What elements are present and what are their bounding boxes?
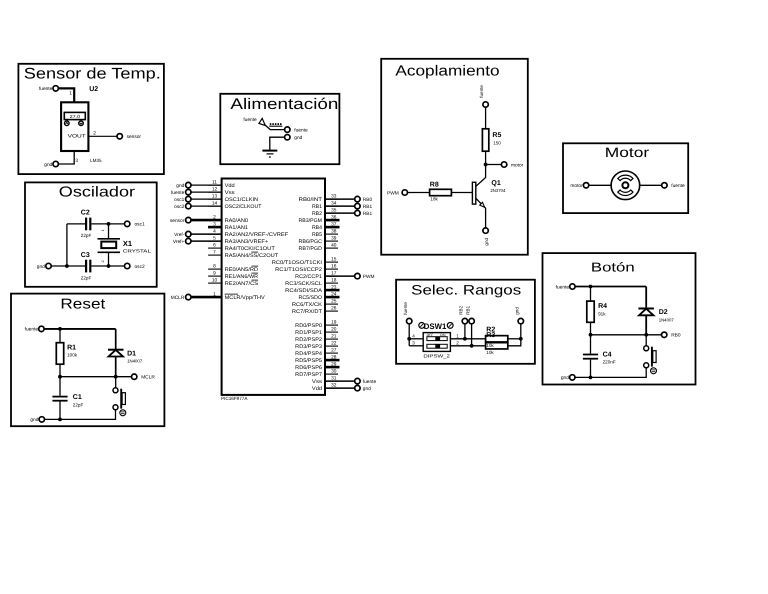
- dangling wire right row 16: [325, 296, 340, 299]
- capacitor C1 plates: [52, 396, 67, 398]
- svg-text:D1: D1: [127, 350, 136, 357]
- pin 17 (RC2/CCP1) right stub: [325, 275, 338, 277]
- svg-text:Vref+: Vref+: [173, 239, 185, 245]
- terminal gnd (alimentacion block): [285, 135, 290, 140]
- svg-text:OSC1/CLKIN: OSC1/CLKIN: [225, 197, 259, 203]
- block border: Selec. Rangos: [396, 280, 535, 364]
- terminal gnd (boton block): [570, 375, 575, 380]
- svg-text:1: 1: [69, 91, 72, 97]
- svg-text:22pF: 22pF: [81, 275, 92, 280]
- node junction D1/button: [114, 375, 118, 379]
- svg-text:Q1: Q1: [491, 180, 500, 187]
- svg-text:R5: R5: [492, 132, 501, 139]
- block border: Sensor de Temp.: [18, 64, 164, 174]
- power net hatch marks: [270, 123, 272, 125]
- dangling wire right row 5: [325, 219, 340, 222]
- pin 13 (OSC1/CLKIN) left stub: [208, 198, 222, 200]
- terminal sensor (chip left): [191, 219, 222, 222]
- svg-text:3: 3: [75, 158, 78, 164]
- svg-text:18: 18: [331, 278, 337, 284]
- terminal osc2 (chip left): [191, 205, 222, 207]
- dangling wire pin 3 (RA1): [208, 226, 222, 229]
- terminal fuente (alimentacion block): [285, 127, 290, 132]
- wire node to motor terminal: [486, 164, 502, 166]
- svg-text:RE1/AN6/WR: RE1/AN6/WR: [225, 274, 259, 280]
- svg-text:40: 40: [331, 243, 337, 249]
- node junction C1/gnd row: [58, 418, 62, 422]
- svg-text:Reset: Reset: [60, 297, 105, 313]
- svg-text:16: 16: [331, 264, 337, 270]
- terminal gnd (reset block): [39, 417, 44, 422]
- svg-text:RA1/AN1: RA1/AN1: [225, 225, 249, 231]
- wire C3 to osc2 terminal: [91, 265, 124, 267]
- wire R5 to collector node: [485, 151, 487, 164]
- svg-text:RB0: RB0: [671, 333, 681, 339]
- svg-text:VOUT: VOUT: [68, 134, 86, 140]
- terminal RB0 (boton block): [662, 332, 667, 337]
- svg-text:X1: X1: [123, 239, 132, 248]
- pin 32 (Vdd) right stub: [325, 387, 338, 389]
- svg-text:osc1: osc1: [174, 197, 184, 203]
- terminal MCLR (chip left): [191, 296, 222, 299]
- svg-text:RD0/PSP0: RD0/PSP0: [295, 323, 322, 329]
- svg-text:RB5: RB5: [312, 232, 322, 238]
- pin 5 (RA3/AN3/VREF+) left stub: [208, 240, 222, 242]
- node junction R4/C4: [589, 333, 593, 337]
- svg-text:gnd: gnd: [37, 264, 45, 270]
- block border: Oscilador: [25, 182, 157, 286]
- svg-text:R8: R8: [430, 181, 439, 188]
- wire gnd vertical (selec): [520, 324, 522, 339]
- node junction gnd/row1: [519, 337, 523, 341]
- wire R3 to gnd vertical: [508, 339, 521, 346]
- svg-text:PWM: PWM: [387, 190, 399, 196]
- block border: Acoplamiento: [381, 59, 528, 255]
- svg-text:gnd: gnd: [363, 386, 371, 392]
- svg-text:8: 8: [213, 264, 216, 270]
- svg-text:gnd: gnd: [176, 183, 184, 189]
- svg-text:27.0: 27.0: [70, 114, 81, 119]
- svg-text:MCLR: MCLR: [171, 295, 185, 301]
- svg-text:Sensor de Temp.: Sensor de Temp.: [24, 66, 161, 83]
- svg-text:C1: C1: [73, 394, 82, 401]
- wire D2 top: [645, 287, 647, 309]
- transistor Q1 2N3704: [472, 182, 475, 204]
- svg-text:25: 25: [331, 299, 337, 305]
- svg-text:Vss: Vss: [225, 190, 236, 196]
- svg-text:fuente: fuente: [363, 379, 377, 385]
- motor M1 symbol: [611, 171, 640, 200]
- node junction RB1/row2: [470, 344, 474, 348]
- node junction C4/gnd row: [589, 376, 593, 380]
- terminal RB1 (chip right): [325, 205, 355, 207]
- svg-text:RC6/TX/CK: RC6/TX/CK: [292, 302, 323, 308]
- node junction R1/C1: [58, 375, 62, 379]
- svg-text:RB4: RB4: [312, 225, 322, 231]
- svg-text:30: 30: [331, 369, 337, 375]
- wire gnd terminal to ground symbol: [270, 137, 285, 150]
- ground symbol: [262, 150, 277, 152]
- svg-text:Vss: Vss: [312, 379, 323, 385]
- svg-text:2N3704: 2N3704: [490, 188, 506, 193]
- pin 29 (RD6/PSP6) right stub: [325, 366, 338, 368]
- svg-text:RC7/RX/DT: RC7/RX/DT: [292, 309, 323, 315]
- pin 8 (RE0/AN5/RD) left stub: [208, 268, 222, 270]
- pin 34 (RB1) right stub: [325, 205, 338, 207]
- svg-text:6: 6: [213, 243, 216, 249]
- wire motor terminal to motor: [589, 184, 611, 186]
- svg-text:22pF: 22pF: [73, 403, 84, 408]
- pin 22 (RD3/PSP3) right stub: [325, 345, 338, 347]
- svg-text:gnd: gnd: [561, 375, 569, 381]
- svg-text:fuente: fuente: [25, 327, 39, 333]
- svg-text:fuente: fuente: [39, 86, 53, 92]
- wire RB1 vertical: [471, 324, 473, 346]
- wire RB0 row (boton): [591, 334, 662, 336]
- svg-text:10k: 10k: [486, 343, 494, 348]
- terminal fuente (sensor block): [53, 86, 58, 91]
- svg-text:Vdd: Vdd: [225, 183, 235, 189]
- block border: Boton: [543, 253, 696, 384]
- svg-text:10: 10: [212, 278, 218, 284]
- pin 7 (RA5/AN4/SS/C2OUT) left stub: [208, 254, 222, 256]
- svg-text:C3: C3: [81, 252, 90, 259]
- block border: Alimentacion: [220, 94, 339, 164]
- diode D2: [638, 308, 654, 310]
- node junction collector/motor: [484, 163, 488, 167]
- svg-text:RB1: RB1: [363, 211, 373, 217]
- svg-text:26: 26: [331, 306, 337, 312]
- svg-text:RD6/PSP6: RD6/PSP6: [295, 365, 322, 371]
- terminal Vref- (chip left): [191, 233, 222, 235]
- LM35 adjust button up: [65, 121, 70, 126]
- pin 2 (RA0/AN0) left stub: [208, 219, 222, 221]
- terminal gnd (oscilador block): [46, 263, 51, 268]
- node junction osc1/X1: [107, 222, 111, 226]
- resistor R5: [482, 129, 488, 151]
- svg-text:1: 1: [456, 333, 459, 338]
- svg-text:RC1/T1OSI/CCP2: RC1/T1OSI/CCP2: [275, 267, 322, 273]
- wire R4 top: [590, 287, 592, 302]
- pin 31 (Vss) right stub: [325, 380, 338, 382]
- svg-text:Motor: Motor: [605, 145, 650, 160]
- svg-text:RB0/INT: RB0/INT: [299, 197, 323, 203]
- svg-text:27: 27: [331, 348, 337, 354]
- pin 25 (RC6/TX/CK) right stub: [325, 303, 338, 305]
- svg-text:21: 21: [331, 334, 337, 340]
- wire D1 bottom: [115, 357, 117, 377]
- svg-text:MCLR/Vpp/THV: MCLR/Vpp/THV: [225, 295, 266, 301]
- terminal PWM (acoplamiento block): [402, 190, 407, 195]
- wire R8 to base: [451, 192, 472, 194]
- pin 33 (RB0/INT) right stub: [325, 198, 338, 200]
- svg-text:DIPSW_2: DIPSW_2: [423, 353, 450, 358]
- svg-text:D2: D2: [659, 309, 668, 316]
- dangling wire right row 26: [325, 366, 340, 369]
- terminal motor (acoplamiento block): [501, 162, 506, 167]
- svg-text:CRYSTAL: CRYSTAL: [123, 249, 152, 254]
- DSW1 annotation circles: [419, 323, 425, 329]
- svg-text:OSC2/CLKOUT: OSC2/CLKOUT: [225, 204, 263, 210]
- svg-text:RB7/PGD: RB7/PGD: [299, 246, 323, 252]
- svg-text:1N4007: 1N4007: [659, 317, 675, 322]
- wire D1 top: [115, 329, 117, 350]
- svg-text:Acoplamiento: Acoplamiento: [395, 63, 499, 79]
- svg-text:4: 4: [412, 333, 415, 338]
- svg-text:20: 20: [331, 327, 337, 333]
- wire fuente to R5: [485, 107, 487, 129]
- svg-text:150: 150: [493, 140, 501, 145]
- wire MCLR row (reset): [60, 376, 132, 378]
- resistor R8: [430, 189, 452, 195]
- svg-text:osc2: osc2: [174, 204, 184, 210]
- node junction D2/button (boton): [644, 333, 648, 337]
- svg-text:RA5/AN4/SS/C2OUT: RA5/AN4/SS/C2OUT: [225, 253, 280, 259]
- svg-text:RC4/SDI/SDA: RC4/SDI/SDA: [285, 288, 322, 294]
- svg-text:RC5/SDO: RC5/SDO: [299, 295, 322, 301]
- pin 24 (RC5/SDO) right stub: [325, 296, 338, 298]
- wire gnd row: [51, 265, 85, 267]
- svg-text:RD1/PSP1: RD1/PSP1: [295, 330, 322, 336]
- wire C4 bottom: [590, 360, 592, 378]
- svg-text:PWM: PWM: [363, 274, 375, 280]
- wire C2 branch vertical: [66, 224, 68, 266]
- node junction fuente/R1: [58, 327, 62, 331]
- terminal RB0 (chip right): [325, 198, 355, 200]
- svg-text:1: 1: [101, 230, 105, 232]
- wire R2 to gnd vertical: [508, 338, 521, 340]
- terminal osc2 (oscilador block): [125, 263, 130, 268]
- terminal fuente (reset block): [39, 326, 44, 331]
- svg-text:Botón: Botón: [591, 260, 635, 275]
- wire R1 top: [59, 329, 61, 343]
- terminal PWM (chip right): [325, 275, 355, 277]
- IC U2 body (LM35): [61, 102, 88, 151]
- wire fuente vertical (selec): [408, 324, 410, 346]
- svg-text:RB1: RB1: [312, 204, 322, 210]
- pin 26 (RC7/RX/DT) right stub: [325, 310, 338, 312]
- svg-text:RD7/PSP7: RD7/PSP7: [295, 372, 322, 378]
- svg-text:RC2/CCP1: RC2/CCP1: [295, 274, 322, 280]
- svg-text:RB0: RB0: [363, 197, 373, 203]
- Q1 emitter arrow: [480, 202, 485, 207]
- pin 23 (RC4/SDI/SDA) right stub: [325, 289, 338, 291]
- wire fuente rail (boton): [575, 286, 646, 288]
- svg-text:Vdd: Vdd: [312, 386, 322, 392]
- pin 36 (RB3/PGM) right stub: [325, 219, 338, 221]
- pin 30 (RD7/PSP7) right stub: [325, 373, 338, 375]
- wire fuente to U2 pin 1: [58, 88, 74, 102]
- wire button top (boton): [645, 335, 647, 346]
- svg-text:220nF: 220nF: [603, 360, 616, 365]
- DSW1 channel 2: [427, 344, 447, 348]
- wire to DSW1 pin 3: [409, 345, 423, 347]
- terminal fuente (boton block): [570, 284, 575, 289]
- pin 6 (RA4/T0CKI/C1OUT) left stub: [208, 247, 222, 249]
- svg-text:motor: motor: [511, 162, 524, 168]
- svg-text:gnd: gnd: [515, 307, 520, 315]
- terminal motor (motor block): [583, 183, 588, 188]
- capacitor C4 plates: [583, 354, 598, 356]
- svg-text:gnd: gnd: [44, 162, 52, 168]
- wire VOUT to sensor terminal: [88, 135, 117, 137]
- block border: Reset: [11, 294, 164, 427]
- svg-text:Vref-: Vref-: [174, 232, 185, 238]
- svg-text:ON: ON: [440, 333, 446, 337]
- node junction osc2/X1: [107, 264, 111, 268]
- svg-text:motor: motor: [570, 183, 583, 189]
- svg-text:C4: C4: [603, 351, 612, 358]
- svg-text:LM35: LM35: [90, 158, 102, 163]
- svg-text:22: 22: [331, 341, 337, 347]
- node junction RB2/row1: [463, 337, 467, 341]
- pin 28 (RD5/PSP5) right stub: [325, 359, 338, 361]
- pin 18 (RC3/SCK/SCL) right stub: [325, 282, 338, 284]
- resistor R1: [56, 343, 63, 365]
- terminal osc1 (chip left): [191, 198, 222, 200]
- wire X1 bottom: [108, 252, 110, 266]
- svg-text:100k: 100k: [67, 353, 78, 358]
- svg-text:15: 15: [331, 257, 337, 263]
- terminal fuente (motor block): [662, 183, 667, 188]
- svg-text:DSW1: DSW1: [424, 322, 447, 331]
- wire C4 top: [590, 335, 592, 354]
- svg-text:fuente: fuente: [294, 127, 308, 133]
- LM35 adjust button down: [79, 121, 84, 126]
- push button (reset): [113, 388, 118, 393]
- wire button bottom to gnd row (reset): [45, 410, 116, 420]
- wire C1 bottom: [59, 402, 61, 420]
- pin 16 (RC1/T1OSI/CCP2) right stub: [325, 268, 338, 270]
- svg-text:gnd: gnd: [294, 135, 302, 141]
- pin 37 (RB4) right stub: [325, 226, 338, 228]
- terminal gnd (acoplamiento block): [483, 228, 488, 233]
- svg-text:1N4007: 1N4007: [127, 358, 143, 363]
- svg-text:fuente: fuente: [403, 302, 408, 315]
- node junction fuente/R4: [589, 285, 593, 289]
- wire button top (reset): [115, 377, 117, 388]
- terminal sensor (sensor block): [117, 134, 122, 139]
- pin 9 (RE1/AN6/WR) left stub: [208, 275, 222, 277]
- pin 19 (RD0/PSP0) right stub: [325, 324, 338, 326]
- svg-text:39: 39: [331, 236, 337, 242]
- LM35 temperature display 27.0: [64, 112, 85, 119]
- resistor R2: [486, 336, 508, 342]
- node junction fuente/pin4: [407, 337, 411, 341]
- svg-text:RB6/PGC: RB6/PGC: [299, 239, 323, 245]
- svg-text:R1: R1: [67, 344, 76, 351]
- svg-text:RE2/AN7/CS: RE2/AN7/CS: [225, 281, 259, 287]
- block border: Motor: [563, 143, 688, 213]
- pin 39 (RB6/PGC) right stub: [325, 240, 338, 242]
- terminal MCLR (reset block): [132, 374, 137, 379]
- dangling wire right row 6: [325, 226, 340, 229]
- svg-text:gnd: gnd: [30, 417, 38, 423]
- svg-text:RA4/T0CKI/C1OUT: RA4/T0CKI/C1OUT: [225, 246, 276, 252]
- pin 10 (RE2/AN7/CS) left stub: [208, 282, 222, 284]
- wire C1 top: [59, 377, 61, 396]
- svg-text:fuente: fuente: [171, 190, 185, 196]
- svg-text:18k: 18k: [430, 196, 438, 201]
- svg-text:Oscilador: Oscilador: [59, 184, 135, 200]
- svg-text:2: 2: [101, 260, 105, 262]
- svg-text:sensor: sensor: [127, 135, 142, 140]
- svg-text:RB3/PGM: RB3/PGM: [299, 218, 322, 224]
- svg-text:C2: C2: [81, 209, 90, 216]
- pin 20 (RD1/PSP1) right stub: [325, 331, 338, 333]
- svg-text:2: 2: [456, 340, 459, 345]
- push button marker (boton): [651, 368, 657, 374]
- svg-text:RC0/T1OSO/T1CKI: RC0/T1OSO/T1CKI: [272, 260, 322, 266]
- svg-text:9: 9: [213, 271, 216, 277]
- wire motor to fuente terminal: [640, 184, 662, 186]
- IC U1 PIC16F877A body: [222, 179, 325, 395]
- capacitor C3 plates: [85, 260, 87, 273]
- svg-text:RB2: RB2: [459, 305, 464, 314]
- diode D1: [108, 349, 124, 351]
- wire U2 pin 3 to gnd: [58, 151, 74, 164]
- svg-text:gnd: gnd: [484, 237, 489, 245]
- svg-text:MCLR: MCLR: [141, 375, 155, 381]
- svg-text:RB1: RB1: [465, 305, 470, 314]
- wire R4 bottom: [590, 322, 592, 335]
- wire RB2 vertical: [464, 324, 466, 339]
- svg-text:RB2: RB2: [312, 211, 322, 217]
- power symbol arrow: [259, 118, 265, 125]
- svg-text:osc2: osc2: [135, 264, 145, 270]
- pin 38 (RB5) right stub: [325, 233, 338, 235]
- terminal gnd (chip left): [191, 184, 222, 186]
- svg-text:RC3/SCK/SCL: RC3/SCK/SCL: [285, 281, 322, 287]
- svg-text:91k: 91k: [598, 312, 606, 317]
- svg-text:38: 38: [331, 229, 337, 235]
- pin 12 (Vss) left stub: [208, 191, 222, 193]
- resistor R4: [587, 301, 594, 322]
- svg-text:22pF: 22pF: [81, 233, 92, 238]
- terminal gnd (sensor block): [53, 161, 58, 166]
- svg-text:RD3/PSP3: RD3/PSP3: [295, 344, 322, 350]
- svg-text:RD4/PSP4: RD4/PSP4: [295, 351, 322, 357]
- svg-text:3: 3: [412, 340, 415, 345]
- dip switch DSW1 body: [423, 333, 450, 352]
- pin 27 (RD4/PSP4) right stub: [325, 352, 338, 354]
- wire osc1 row left: [67, 223, 85, 225]
- svg-text:fuente: fuente: [671, 183, 685, 189]
- svg-text:RE0/AN5/RD: RE0/AN5/RD: [225, 267, 259, 273]
- pin 15 (RC0/T1OSO/T1CKI) right stub: [325, 261, 338, 263]
- svg-text:19: 19: [331, 320, 337, 326]
- svg-text:R4: R4: [598, 303, 607, 310]
- svg-text:RD2/PSP2: RD2/PSP2: [295, 337, 322, 343]
- pin 1 (MCLR/Vpp/THV) left stub: [208, 296, 222, 298]
- svg-text:osc1: osc1: [135, 222, 145, 228]
- svg-text:RB1: RB1: [363, 204, 373, 210]
- wire R1 bottom: [59, 364, 61, 377]
- wire X1 top: [108, 224, 110, 239]
- resistor R3: [486, 343, 508, 349]
- wire DSW1 pin2 to R3: [450, 345, 485, 347]
- wire DSW1 pin1 to R2: [450, 338, 485, 340]
- pin 40 (RB7/PGD) right stub: [325, 247, 338, 249]
- wire to DSW1 pin 4: [409, 338, 423, 340]
- pin 11 (Vdd) left stub: [208, 184, 222, 186]
- DSW1 channel 1: [427, 337, 447, 341]
- svg-text:PIC16F877A: PIC16F877A: [221, 396, 248, 401]
- svg-text:fuente: fuente: [556, 284, 570, 290]
- pin 21 (RD2/PSP2) right stub: [325, 338, 338, 340]
- svg-text:RA2/AN2/VREF-/CVREF: RA2/AN2/VREF-/CVREF: [225, 232, 289, 238]
- wire PWM to R8: [408, 192, 430, 194]
